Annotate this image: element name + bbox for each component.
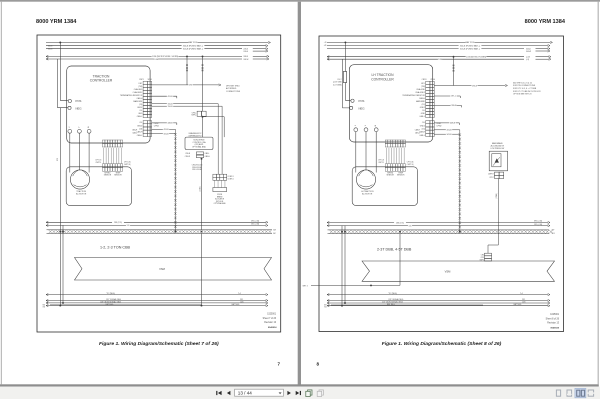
junction COM B	[202, 55, 204, 57]
svg-text:SHT 2: SHT 2	[303, 285, 308, 287]
svg-text:131 (+30): 131 (+30)	[534, 224, 543, 226]
svg-text:FU 2: FU 2	[338, 79, 342, 81]
wire 431-B low	[152, 129, 176, 131]
svg-text:431-B: 431-B	[163, 129, 169, 131]
svg-text:600 SHTS 20, 21 & 22: 600 SHTS 20, 21 & 22	[513, 82, 532, 84]
svg-text:CMPT-S): CMPT-S)	[407, 164, 414, 166]
wire drop p8	[453, 57, 455, 86]
svg-text:OPTION SEE SHT 23: OPTION SEE SHT 23	[513, 94, 531, 96]
toolbar background	[0, 387, 600, 399]
button continuous	[567, 390, 572, 396]
VSM module banner	[75, 258, 272, 281]
ground bat neg	[46, 305, 48, 307]
svg-text:LOW PRESS SW: LOW PRESS SW	[490, 148, 504, 150]
schematic frame sheet 8	[319, 36, 564, 332]
terminal POS	[68, 99, 71, 102]
svg-text:(+3): (+3)	[526, 59, 529, 61]
svg-text:5P84: 5P84	[148, 79, 152, 81]
svg-text:FROM: FROM	[217, 194, 222, 196]
svg-text:296-B: 296-B	[472, 85, 478, 87]
svg-text:OIL: OIL	[139, 122, 142, 124]
svg-text:FOR UTC U-5, 6 + CT DBB: FOR UTC U-5, 6 + CT DBB	[513, 88, 537, 90]
svg-text:4-5T DBB): 4-5T DBB)	[333, 84, 342, 86]
svg-text:CNP4: CNP4	[422, 79, 427, 81]
svg-text:CR6-S 341-B2: CR6-S 341-B2	[192, 169, 202, 171]
bus fused 1 p8	[327, 45, 548, 47]
svg-text:CHA-GND2: CHA-GND2	[415, 91, 425, 94]
svg-text:431-B: 431-B	[167, 96, 173, 98]
svg-text:CR6-B: CR6-B	[185, 153, 190, 155]
wire signal ground drop	[62, 225, 64, 303]
button single page	[556, 390, 560, 396]
svg-text:(TM): (TM)	[138, 86, 142, 88]
wire 187-L p8	[434, 95, 460, 97]
svg-text:CONNECTIONS: CONNECTIONS	[226, 91, 241, 93]
button next page	[287, 391, 291, 395]
svg-text:187-L: 187-L	[451, 96, 456, 98]
wire POS feed p8	[344, 42, 346, 71]
bus 131	[46, 224, 48, 226]
svg-text:Revision 13: Revision 13	[264, 322, 277, 324]
svg-text:(13): (13)	[422, 104, 426, 106]
svg-text:CAN-H: CAN-H	[419, 97, 426, 100]
svg-text:GND: GND	[421, 113, 426, 115]
junction can	[201, 158, 203, 160]
svg-text:CPTO-S): CPTO-S)	[407, 162, 414, 164]
page number box	[235, 389, 284, 396]
svg-text:COM: COM	[154, 59, 159, 61]
svg-text:CPN2: CPN2	[436, 125, 441, 127]
svg-text:NEG: NEG	[359, 106, 365, 110]
wire CR6-B p8	[434, 104, 461, 106]
svg-text:CPTO-S: CPTO-S	[378, 160, 384, 162]
svg-text:+70: +70	[324, 42, 327, 44]
bus COM 2	[46, 58, 48, 60]
svg-text:OIL: OIL	[139, 110, 142, 112]
wire NEG feed p8	[343, 59, 350, 108]
svg-text:288 (176): 288 (176)	[396, 222, 404, 224]
top page-break strip	[0, 0, 600, 2]
svg-text:BAT NEG: BAT NEG	[514, 303, 522, 306]
svg-text:8000 YRM 1384: 8000 YRM 1384	[36, 19, 77, 25]
svg-text:13 / 44: 13 / 44	[238, 391, 252, 396]
ground signal neg	[46, 299, 48, 301]
connector brake actuator	[213, 174, 216, 177]
svg-text:448-B: 448-B	[450, 123, 456, 125]
svg-text:SENSOR: SENSOR	[397, 174, 405, 176]
junction COM A	[186, 55, 188, 57]
svg-text:(TM): (TM)	[421, 86, 425, 88]
svg-text:BAT NEG: BAT NEG	[106, 303, 114, 306]
svg-text:MAIN BRAKE: MAIN BRAKE	[492, 142, 504, 145]
svg-text:AC MOTOR: AC MOTOR	[76, 193, 87, 196]
svg-text:GND2: GND2	[137, 125, 142, 127]
svg-text:295 (+30): 295 (+30)	[251, 220, 260, 222]
wire 448-B	[152, 122, 177, 124]
wire 448-B p8	[434, 122, 459, 124]
junction bat pos p8	[344, 41, 346, 43]
wire POS feed	[60, 43, 68, 101]
svg-text:(174B): (174B)	[199, 186, 201, 191]
wire drop B	[202, 56, 204, 111]
svg-text:CPN4: CPN4	[430, 79, 435, 81]
svg-text:CAN-L: CAN-L	[137, 115, 143, 118]
connector UPS/SWF	[197, 111, 201, 116]
svg-text:POS: POS	[76, 99, 82, 103]
button first page	[218, 391, 222, 395]
wire option loop	[203, 117, 225, 137]
svg-text:CMPT-S): CMPT-S)	[124, 164, 131, 166]
svg-text:131: 131	[127, 225, 130, 227]
wire 341-B	[152, 133, 176, 135]
svg-text:COM (KEYED POWER): COM (KEYED POWER)	[466, 57, 487, 59]
svg-text:304-B (FUSED BAR +): 304-B (FUSED BAR +)	[183, 45, 204, 48]
svg-text:CAN-H: CAN-H	[136, 131, 143, 134]
svg-text:209-B: 209-B	[48, 45, 52, 47]
svg-text:CHA-GND2: CHA-GND2	[133, 91, 143, 94]
bus COM 2 p8	[327, 58, 329, 60]
svg-text:BAT NEG: BAT NEG	[232, 303, 240, 306]
svg-text:448-B: 448-B	[167, 123, 173, 125]
button last page	[296, 391, 300, 395]
svg-text:7-4: 7-4	[238, 293, 241, 295]
button previous page	[227, 391, 231, 395]
svg-text:8948934: 8948934	[268, 326, 277, 329]
wires motor phases p8	[355, 132, 357, 173]
wires motor phases	[69, 133, 71, 172]
ground non signal p8	[327, 302, 329, 304]
wire battery negative drop	[59, 108, 61, 306]
svg-text:303-W: 303-W	[243, 59, 248, 61]
svg-text:MAIN BRK: MAIN BRK	[133, 100, 143, 103]
motor M1 traction	[66, 167, 131, 206]
svg-text:SWF-L: SWF-L	[191, 115, 196, 117]
svg-text:304-B (FUSED BAR -): 304-B (FUSED BAR -)	[460, 47, 480, 50]
wire 296	[152, 84, 219, 86]
bus 288	[46, 221, 48, 223]
svg-text:V: V	[365, 125, 367, 126]
svg-text:BAT NEG: BAT NEG	[387, 303, 395, 306]
svg-text:391: 391	[552, 233, 555, 235]
wire sht2	[311, 284, 400, 286]
svg-text:8000 YRM 1384: 8000 YRM 1384	[525, 19, 566, 25]
svg-text:Sheet 8 of 26: Sheet 8 of 26	[546, 318, 560, 321]
motor M2 LH traction	[352, 167, 417, 206]
terminal NEG	[68, 106, 71, 109]
svg-text:ALT/SPEED: ALT/SPEED	[226, 87, 237, 90]
svg-text:CR6-B 341-B1: CR6-B 341-B1	[192, 167, 202, 169]
svg-text:CAN-L: CAN-L	[137, 134, 143, 137]
wire 431-B p8	[434, 130, 460, 132]
svg-text:GND2: GND2	[420, 107, 425, 109]
ground signal neg p8	[327, 299, 329, 301]
wire 156-B a	[152, 104, 219, 175]
svg-text:CAN-H: CAN-H	[419, 131, 426, 134]
wire 156-B b	[152, 106, 223, 174]
svg-text:CPTO-S): CPTO-S)	[124, 162, 131, 164]
svg-text:OPTIONAL AND: OPTIONAL AND	[192, 146, 207, 149]
button prev view	[308, 390, 312, 395]
svg-text:POS: POS	[359, 99, 365, 103]
svg-text:CAN-L: CAN-L	[419, 115, 425, 118]
ground non signal	[46, 302, 48, 304]
connector CMPST	[495, 172, 500, 175]
svg-text:CAN-L: CAN-L	[419, 134, 425, 137]
svg-text:CMPST: CMPST	[488, 174, 494, 176]
svg-text:COM: COM	[438, 59, 443, 61]
connector sensors	[102, 140, 105, 143]
svg-text:Sheet 7 of 26: Sheet 7 of 26	[263, 317, 277, 320]
svg-text:CPST: CPST	[489, 177, 493, 179]
svg-text:1-2, 2-3 TON CBB: 1-2, 2-3 TON CBB	[100, 246, 131, 250]
svg-text:CPN: CPN	[481, 257, 484, 259]
svg-text:(13): (13)	[422, 128, 426, 130]
svg-text:AC MOTOR: AC MOTOR	[362, 193, 373, 196]
svg-text:Figure 1. Wiring Diagram/Schem: Figure 1. Wiring Diagram/Schematic (Shee…	[382, 341, 502, 347]
button next view	[319, 390, 323, 395]
connector sensors p8	[385, 140, 388, 143]
wire option drop	[202, 117, 204, 137]
op-amp U1 traction controller	[67, 66, 150, 143]
svg-text:CR6-W: CR6-W	[185, 156, 191, 158]
wire can drop	[201, 159, 203, 230]
svg-text:ACCUMULATOR: ACCUMULATOR	[491, 144, 505, 147]
svg-text:GND2: GND2	[420, 125, 425, 127]
ground bat neg p8	[327, 305, 329, 307]
svg-text:213" (NON SIGNAL GND): 213" (NON SIGNAL GND)	[382, 300, 403, 303]
VSM module banner p8	[362, 261, 555, 281]
svg-text:(2-3T DBB: (2-3T DBB	[333, 82, 342, 84]
bus COM keyed p8	[327, 56, 329, 58]
svg-text:NEG: NEG	[76, 106, 82, 110]
svg-text:SENSOR: SENSOR	[114, 174, 122, 176]
wire 431-B top	[152, 95, 177, 97]
svg-text:GND2: GND2	[137, 107, 142, 109]
svg-text:231: 231	[522, 299, 525, 301]
svg-text:CHA-GND: CHA-GND	[416, 88, 425, 91]
wire 296-B p8	[434, 85, 505, 87]
svg-text:304-B (FUSED BAR +): 304-B (FUSED BAR +)	[460, 44, 481, 47]
svg-text:172: 172	[57, 158, 59, 161]
svg-text:OIL: OIL	[422, 110, 425, 112]
bus fused 2 p8	[327, 48, 524, 50]
box brake actuator	[213, 188, 227, 192]
terminal NEG p8	[350, 106, 353, 109]
svg-text:CAN-H: CAN-H	[136, 97, 143, 100]
svg-text:COMP-1: COMP-1	[228, 179, 234, 181]
connector CR6 stack	[485, 253, 492, 256]
svg-text:296: 296	[189, 85, 192, 87]
svg-text:CR6-W 341-B0: CR6-W 341-B0	[192, 165, 203, 167]
terminals U V W p8	[354, 128, 358, 132]
ground 15 neg p8	[327, 294, 329, 296]
svg-text:(13)" (NON SIGNAL GND): (13)" (NON SIGNAL GND)	[100, 300, 121, 303]
svg-text:CR6: CR6	[481, 254, 484, 256]
svg-text:V: V	[78, 127, 80, 128]
terminals U V W	[68, 129, 72, 133]
bus COM microphone	[46, 55, 48, 57]
svg-text:TERMINATING RESISTOR: TERMINATING RESISTOR	[402, 94, 425, 97]
svg-text:+7E: +7E	[324, 45, 327, 47]
terminal strip VSM edge p8	[328, 229, 550, 231]
svg-text:CMPS: CMPS	[479, 260, 483, 262]
left window edge	[1, 2, 2, 385]
schematic frame sheet 7	[37, 35, 281, 332]
wire vsm drop p8	[399, 234, 401, 286]
wire signal ground drop p8	[344, 226, 346, 304]
button facing selected	[575, 388, 586, 397]
svg-text:CNP1: CNP1	[139, 79, 144, 81]
svg-text:UPS-L: UPS-L	[192, 112, 197, 114]
svg-text:VSM: VSM	[445, 269, 452, 273]
bus 288 p8	[327, 221, 329, 223]
svg-text:209-B: 209-B	[48, 48, 52, 50]
svg-text:"15" (NEG): "15" (NEG)	[388, 293, 397, 295]
svg-text:BAT POS: BAT POS	[189, 41, 198, 44]
svg-text:CMPT-1: CMPT-1	[95, 162, 101, 164]
svg-text:CPN2: CPN2	[154, 125, 159, 127]
svg-text:(13): (13)	[522, 302, 526, 304]
svg-text:VSM: VSM	[159, 267, 166, 271]
svg-text:309: 309	[273, 230, 276, 232]
fuse FU2	[343, 72, 346, 83]
bus 131 p8	[327, 225, 329, 227]
svg-text:U: U	[69, 127, 71, 128]
terminal strip VSM edge	[47, 229, 273, 231]
right page edge	[598, 2, 599, 385]
terminal POS p8	[351, 99, 354, 102]
svg-text:(17MB): (17MB)	[496, 193, 498, 199]
svg-text:395 (+30): 395 (+30)	[534, 221, 543, 223]
harness bundle	[174, 132, 176, 233]
svg-text:341-B: 341-B	[446, 134, 452, 136]
page gutter divider	[298, 2, 301, 386]
wire battery negative drop p8	[341, 226, 343, 306]
op-amp U2 LH traction controller	[349, 65, 432, 142]
svg-text:TRACTION: TRACTION	[76, 190, 86, 193]
svg-text:TERMINATING RESISTOR: TERMINATING RESISTOR	[120, 94, 143, 97]
pages bottom edge	[0, 384, 599, 386]
ground 15 neg	[46, 294, 48, 296]
wire 341-B p8	[434, 133, 460, 135]
bus BAT POS	[46, 42, 269, 44]
svg-text:341-B: 341-B	[163, 133, 169, 135]
svg-text:304-B (FUSED BAR -): 304-B (FUSED BAR -)	[183, 48, 203, 51]
svg-text:397: 397	[552, 230, 555, 232]
svg-text:CHA-GND: CHA-GND	[134, 88, 143, 91]
bus fused 2	[46, 48, 242, 50]
wire NEG feed	[58, 59, 68, 108]
wire can to bat neg	[201, 233, 203, 305]
svg-text:GND: GND	[138, 113, 143, 115]
junction bat pos	[59, 42, 61, 44]
svg-text:CPTO-S: CPTO-S	[95, 160, 101, 162]
svg-text:COMP-1: COMP-1	[228, 176, 234, 178]
svg-text:(DP) ELM.: (DP) ELM.	[216, 201, 224, 203]
wire drop A	[186, 56, 188, 85]
svg-text:FOR PIN CONNECTIONS: FOR PIN CONNECTIONS	[513, 85, 536, 87]
svg-text:2-3T DBB, 4-5T DBB: 2-3T DBB, 4-5T DBB	[377, 248, 412, 252]
svg-text:431-B: 431-B	[446, 130, 452, 132]
svg-text:288 (176): 288 (176)	[114, 222, 122, 224]
svg-text:MAIN BRK: MAIN BRK	[416, 100, 426, 103]
svg-text:7-4: 7-4	[520, 293, 523, 295]
svg-text:131: 131	[409, 225, 412, 227]
svg-text:(13): (13)	[240, 302, 244, 304]
svg-text:SENSOR: SENSOR	[104, 174, 112, 176]
svg-text:(13): (13)	[139, 128, 143, 130]
svg-text:(13): (13)	[139, 104, 143, 106]
svg-text:CONTROLLER: CONTROLLER	[371, 77, 394, 81]
svg-text:"15" (NEG): "15" (NEG)	[106, 293, 115, 295]
svg-text:Figure 1. Wiring Diagram/Schem: Figure 1. Wiring Diagram/Schematic (Shee…	[99, 341, 219, 347]
bus BAT POS p8	[327, 41, 551, 43]
harness bundle p8	[459, 132, 461, 233]
svg-text:131 (+30): 131 (+30)	[251, 224, 260, 226]
wire switch drop	[488, 179, 498, 254]
svg-text:CR6-B: CR6-B	[451, 105, 457, 107]
junction option	[202, 116, 204, 118]
junction COM p8	[453, 56, 455, 58]
svg-text:BAT POS: BAT POS	[466, 41, 475, 44]
svg-text:CONTROLLER: CONTROLLER	[90, 79, 113, 83]
svg-text:8948938: 8948938	[550, 327, 559, 330]
svg-text:OIL: OIL	[422, 122, 425, 124]
svg-text:SENSOR: SENSOR	[387, 174, 395, 176]
bus fused 1	[46, 45, 266, 47]
svg-text:U: U	[355, 125, 357, 126]
svg-text:1025001: 1025001	[550, 314, 560, 316]
svg-text:303-W: 303-W	[526, 51, 531, 53]
svg-text:FOR UT CT DBB W/ OUTDOOR: FOR UT CT DBB W/ OUTDOOR	[513, 91, 541, 93]
svg-text:Revision 13: Revision 13	[547, 323, 560, 325]
button facing continuous	[588, 390, 593, 396]
svg-text:156-B: 156-B	[167, 106, 173, 108]
svg-text:1525001: 1525001	[267, 314, 277, 316]
svg-text:LH TRACTION: LH TRACTION	[361, 190, 374, 193]
svg-text:CMPT-1: CMPT-1	[378, 162, 384, 164]
